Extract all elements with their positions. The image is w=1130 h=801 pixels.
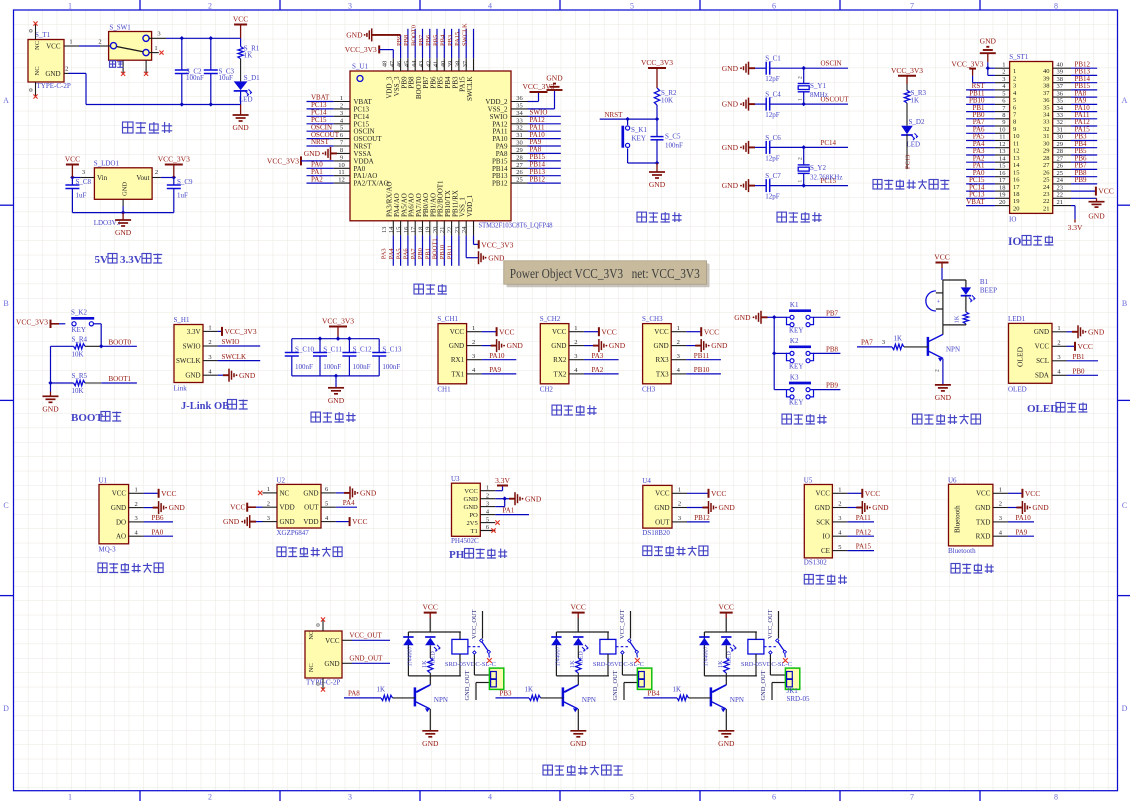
svg-text:3: 3 [882, 339, 885, 346]
svg-text:16: 16 [999, 170, 1006, 177]
svg-text:26: 26 [1057, 163, 1064, 170]
diode 1N4007 unit 3 [699, 636, 709, 638]
key S_K2 [71, 317, 94, 320]
wire net PA3 [584, 359, 619, 361]
svg-text:5: 5 [838, 544, 841, 551]
svg-text:PA1: PA1 [503, 507, 515, 515]
svg-text:SWCLK: SWCLK [222, 353, 247, 361]
svg-text:K2: K2 [790, 337, 799, 345]
svg-text:31: 31 [1057, 127, 1064, 134]
svg-text:TXD: TXD [976, 518, 990, 526]
svg-text:9: 9 [1013, 126, 1016, 133]
wire emitter unit 1 [429, 709, 431, 731]
svg-text:GND: GND [42, 404, 59, 413]
svg-text:NC: NC [280, 489, 290, 497]
ground GND at ST1 pins 1-2 [980, 52, 996, 54]
U1 left net wires VBAT..PA2 [307, 101, 334, 103]
svg-text:3.3V: 3.3V [495, 476, 510, 485]
svg-text:2: 2 [999, 501, 1002, 508]
svg-text:1N4007: 1N4007 [555, 646, 562, 666]
svg-text:11: 11 [1013, 140, 1019, 147]
svg-text:S_CH1: S_CH1 [437, 315, 458, 323]
svg-text:GND: GND [303, 489, 318, 497]
svg-text:VCC: VCC [112, 490, 127, 498]
svg-text:BOOT1: BOOT1 [432, 238, 439, 259]
capacitor S_C10 100nF [291, 339, 293, 353]
svg-text:VCC: VCC [499, 327, 514, 336]
LDO pin 3 Vin [80, 177, 94, 179]
wire net SWIO [218, 345, 261, 347]
svg-text:SWIO: SWIO [183, 342, 201, 350]
svg-text:GND: GND [464, 496, 479, 503]
svg-text:1: 1 [68, 1, 72, 10]
svg-text:29: 29 [1043, 148, 1050, 155]
svg-text:GND: GND [722, 64, 739, 73]
svg-text:Bluetooth: Bluetooth [954, 505, 962, 533]
svg-text:PA7: PA7 [410, 248, 417, 260]
svg-text:1K: 1K [894, 335, 903, 343]
svg-text:NRST: NRST [311, 138, 330, 146]
svg-text:2: 2 [155, 169, 158, 176]
ground GND at CH3 [686, 345, 701, 347]
svg-text:PA3: PA3 [592, 352, 604, 360]
svg-text:A: A [3, 96, 9, 105]
svg-text:13: 13 [1013, 155, 1020, 162]
svg-text:VCC: VCC [46, 43, 61, 51]
ground GND at U5 [847, 507, 862, 509]
svg-text:48: 48 [382, 61, 389, 68]
svg-text:PB8: PB8 [826, 345, 839, 353]
svg-text:31: 31 [1043, 133, 1050, 140]
title ji-dian-qi-kong-zhi-dian-lu (relay control circuit) [543, 765, 552, 775]
svg-text:NPN: NPN [946, 346, 960, 354]
svg-text:1: 1 [677, 325, 680, 332]
svg-text:32: 32 [1057, 119, 1064, 126]
header S_ST1 IO expansion [1010, 62, 1053, 214]
wire emitter unit 2 [577, 709, 579, 731]
TYPE-C-2P bottom pin no connect [322, 678, 324, 689]
ground GND at ST1 pin 22 [1071, 197, 1097, 199]
svg-text:KEY: KEY [789, 326, 803, 334]
svg-text:LED1: LED1 [1008, 315, 1026, 323]
svg-text:PB4: PB4 [648, 689, 661, 697]
capacitor S_C12 100nF [348, 339, 350, 353]
wire net PA9 [482, 373, 517, 375]
svg-text:VCC_3V3: VCC_3V3 [951, 59, 983, 68]
capacitor S_C4 12pF [755, 103, 766, 105]
svg-text:GND: GND [719, 503, 736, 512]
U3 pin 6 no connect [480, 530, 491, 532]
svg-text:2: 2 [267, 500, 270, 507]
wire net PA4 [336, 506, 357, 508]
svg-text:PB4: PB4 [440, 34, 447, 46]
svg-text:25: 25 [1043, 177, 1050, 184]
ST1 right net wires [1071, 67, 1097, 69]
svg-text:S_C13: S_C13 [382, 346, 402, 354]
svg-text:15: 15 [396, 227, 403, 234]
svg-text:21: 21 [1043, 206, 1050, 213]
svg-text:1: 1 [678, 487, 681, 494]
svg-text:JK1: JK1 [787, 687, 799, 695]
svg-text:3: 3 [208, 354, 211, 361]
svg-text:23: 23 [1057, 184, 1064, 191]
svg-text:22: 22 [447, 227, 454, 234]
wire net PA0 module [144, 535, 173, 537]
title chuan-kou-dian-lu (serial circuit) [552, 405, 561, 415]
svg-text:PA6: PA6 [403, 248, 410, 260]
svg-text:27: 27 [1057, 155, 1064, 162]
svg-text:40: 40 [440, 61, 447, 68]
svg-text:RXD: RXD [976, 533, 991, 541]
svg-text:S_D2: S_D2 [909, 118, 925, 126]
svg-text:GND: GND [935, 393, 952, 402]
svg-text:GND: GND [115, 228, 132, 237]
title jiu-jing-jian-ce-mo-kuai (alcohol detection module) [98, 563, 107, 573]
svg-text:VCC_3V3: VCC_3V3 [267, 157, 299, 166]
power VCC_3V3 at H1 pin 1 [218, 330, 222, 332]
svg-text:OUT: OUT [304, 504, 319, 512]
svg-text:3: 3 [157, 31, 160, 38]
svg-text:1K: 1K [569, 660, 576, 668]
svg-text:PB11: PB11 [694, 352, 710, 360]
wire net SWCLK [218, 360, 261, 362]
svg-text:S_CH2: S_CH2 [540, 315, 561, 323]
svg-text:KEY: KEY [789, 399, 803, 407]
svg-text:36: 36 [1057, 90, 1064, 97]
wire net PB11 [686, 359, 721, 361]
power VCC_3V3 filter [329, 326, 347, 328]
svg-text:46: 46 [396, 60, 403, 67]
wire net PB9 [814, 389, 841, 391]
power VCC at LED1 pin 2 [1067, 345, 1076, 347]
svg-text:2: 2 [935, 369, 941, 372]
svg-text:TX3: TX3 [656, 370, 669, 378]
resistor S_R5 10K [51, 382, 74, 384]
svg-text:37: 37 [1043, 90, 1050, 97]
mcu S_U1 STM32F103C8T6_LQFP48 [350, 71, 511, 221]
resistor 1K relay unit 2 [577, 645, 579, 658]
wire crystal net PC15 [804, 185, 848, 187]
svg-text:PA15: PA15 [454, 32, 461, 46]
terminal block unit 1 [489, 668, 503, 689]
diode 1N4007 unit 2 [551, 636, 561, 638]
relay switch contacts unit 1 [468, 646, 480, 648]
title fu-wei-dian-lu (reset circuit) [637, 212, 646, 222]
svg-text:34: 34 [1057, 105, 1064, 112]
svg-text:38: 38 [1057, 76, 1064, 83]
svg-text:16: 16 [403, 226, 410, 233]
svg-text:3: 3 [348, 1, 352, 10]
transistor NPN relay unit 3 [725, 676, 727, 685]
svg-text:1K: 1K [525, 685, 534, 693]
svg-text:12pF: 12pF [765, 75, 780, 83]
wire net BOOT0 [99, 344, 103, 348]
svg-text:2: 2 [208, 1, 212, 10]
svg-text:VCC: VCC [1098, 187, 1113, 196]
svg-text:7: 7 [910, 792, 914, 801]
wire base feed unit 2 [496, 697, 530, 699]
svg-text:39: 39 [1043, 75, 1050, 82]
S_T1 bottom pin (no connect) [35, 82, 37, 97]
power VCC at U2 pin 4 [336, 521, 350, 523]
svg-text:GND: GND [551, 342, 566, 350]
svg-text:28: 28 [1057, 148, 1064, 155]
svg-text:BOOT: BOOT [71, 412, 103, 424]
svg-text:3: 3 [82, 169, 85, 176]
capacitor S_C5 100nF [656, 119, 658, 137]
U3 pin 5 no connect [495, 520, 499, 524]
capacitor S_C7 12pF [755, 185, 766, 187]
LED S_D1 [234, 81, 248, 90]
svg-text:100nF: 100nF [382, 363, 400, 371]
svg-text:20: 20 [432, 227, 439, 234]
svg-text:PB5: PB5 [432, 35, 439, 46]
header S_CH2 serial [540, 324, 569, 384]
svg-text:1K: 1K [377, 685, 386, 693]
svg-text:PB0: PB0 [1073, 367, 1086, 375]
svg-text:PA2: PA2 [311, 175, 323, 183]
ground GND at CH2 [584, 345, 599, 347]
svg-text:100nF: 100nF [295, 363, 313, 371]
svg-text:8MHz: 8MHz [810, 91, 828, 99]
power VCC alarm [936, 262, 949, 264]
ground GND filter [335, 376, 337, 388]
svg-text:GND: GND [975, 504, 990, 512]
svg-text:VBAT: VBAT [966, 198, 985, 206]
svg-text:3: 3 [134, 515, 137, 522]
svg-text:23: 23 [454, 227, 461, 234]
regulator S_LDO1 LDO3V3 [94, 168, 152, 200]
wire LDO ground rail [72, 212, 173, 214]
svg-text:TYPE-C-2P: TYPE-C-2P [37, 82, 71, 90]
svg-text:S_Y1: S_Y1 [810, 82, 826, 90]
svg-text:S_T1: S_T1 [35, 31, 51, 39]
svg-text:VCC: VCC [325, 637, 340, 645]
resistor S_R4 10K [51, 345, 74, 347]
connector TYPE-C-2P relay power [305, 631, 342, 678]
svg-text:GND: GND [654, 504, 669, 512]
svg-text:PB9: PB9 [1075, 176, 1088, 184]
resistor 1K alarm [965, 296, 967, 312]
ground GND above U1 pin 35 [547, 89, 563, 91]
svg-text:15: 15 [1013, 169, 1020, 176]
svg-text:VDD: VDD [303, 518, 318, 526]
svg-text:41: 41 [433, 61, 440, 68]
svg-text:VCC: VCC [352, 517, 367, 526]
svg-text:100nF: 100nF [353, 363, 371, 371]
svg-text:1: 1 [208, 325, 211, 332]
wire net PA1 [495, 514, 529, 516]
svg-text:PB7: PB7 [826, 309, 839, 317]
svg-text:GND: GND [346, 31, 363, 40]
svg-text:PB9: PB9 [396, 35, 403, 46]
resistor S_R1 1K [240, 38, 242, 46]
svg-text:1: 1 [472, 325, 475, 332]
header S_CH3 serial [643, 324, 672, 384]
svg-text:PA15: PA15 [856, 543, 872, 551]
svg-text:3: 3 [472, 353, 475, 360]
wire alarm top rail [943, 279, 966, 281]
svg-text:VCC_3V3: VCC_3V3 [16, 318, 48, 327]
svg-text:PB11: PB11 [446, 245, 453, 259]
svg-text:PA4: PA4 [343, 499, 355, 507]
svg-text:IO: IO [1009, 215, 1016, 223]
LED relay unit 1 [425, 636, 435, 638]
svg-text:KEY: KEY [632, 135, 646, 143]
svg-text:3: 3 [348, 792, 352, 801]
svg-text:VCC: VCC [654, 328, 669, 336]
power VCC_3V3 above U1 pin 36 [530, 91, 548, 93]
svg-text:KEY: KEY [789, 362, 803, 370]
wire emitter unit 3 [725, 709, 727, 731]
header S_CH1 serial [438, 324, 467, 384]
ground GND boot [50, 392, 52, 397]
svg-text:13: 13 [381, 227, 388, 234]
svg-text:35: 35 [1043, 104, 1050, 111]
svg-text:10: 10 [999, 127, 1006, 134]
svg-text:SCL: SCL [1036, 357, 1049, 365]
resistor 1K base alarm [892, 344, 904, 349]
svg-text:3: 3 [574, 353, 577, 360]
power 3.3V at ST1 pin 21 [1071, 205, 1075, 207]
svg-text:100nF: 100nF [323, 363, 341, 371]
title jing-zhen-dian-lu (crystal circuit) [777, 212, 786, 222]
svg-text:2: 2 [1057, 340, 1060, 347]
svg-text:2: 2 [798, 157, 804, 160]
transistor NPN relay unit 1 [429, 676, 431, 685]
svg-text:PO: PO [469, 512, 478, 519]
svg-text:Vout: Vout [136, 174, 149, 182]
module U1 MQ-3 [99, 485, 129, 544]
svg-text:GND: GND [45, 70, 60, 78]
svg-text:S_K1: S_K1 [631, 126, 647, 134]
wire relay common to terminal unit 1 [473, 655, 475, 676]
wire relay common to terminal unit 2 [621, 655, 623, 676]
svg-text:BOOT0: BOOT0 [109, 338, 132, 346]
wire relay unit 3 rails [704, 631, 757, 633]
svg-text:39: 39 [447, 61, 454, 68]
svg-text:37: 37 [462, 60, 469, 67]
svg-text:GND: GND [722, 181, 739, 190]
svg-text:B: B [3, 299, 8, 308]
wire D1 to GND rail [240, 91, 242, 105]
title ya-li-jian-ce-mo-kuai (pressure detection module) [277, 547, 286, 557]
transistor NPN relay unit 2 [577, 676, 579, 685]
svg-text:1: 1 [1002, 61, 1005, 68]
svg-text:SRD-05: SRD-05 [787, 695, 810, 703]
svg-text:U3: U3 [451, 475, 460, 483]
svg-text:VCC_3V3: VCC_3V3 [322, 317, 354, 326]
svg-text:PB12: PB12 [530, 175, 546, 183]
svg-text:GND: GND [360, 489, 377, 498]
display LED1 OLED [1009, 323, 1053, 383]
capacitor S_C11 100nF [319, 339, 321, 353]
svg-text:S_C4: S_C4 [765, 91, 781, 99]
ground GND at LED1 pin 1 [1067, 331, 1079, 333]
title lan-ya-mo-kuai (bluetooth module) [951, 564, 960, 574]
svg-text:1K: 1K [673, 685, 682, 693]
LDO pin 2 Vout [152, 177, 161, 179]
svg-text:S_H1: S_H1 [174, 316, 190, 324]
svg-text:12: 12 [1013, 148, 1020, 155]
U2 pin 1 no connect [258, 491, 262, 495]
svg-text:U1: U1 [99, 476, 108, 484]
svg-text:GND: GND [232, 123, 249, 132]
svg-text:11: 11 [999, 134, 1005, 141]
svg-text:VCC: VCC [815, 490, 830, 498]
svg-text:18: 18 [999, 184, 1006, 191]
svg-text:S_C12: S_C12 [353, 346, 373, 354]
svg-text:GND: GND [711, 341, 728, 350]
U1 bottom net wires [392, 235, 394, 265]
svg-text:J-Link OB: J-Link OB [181, 401, 229, 412]
svg-text:18: 18 [1013, 191, 1020, 198]
wire crystal net OSCIN [804, 67, 848, 69]
S_T1 pin 1 VCC [64, 45, 79, 47]
svg-text:6: 6 [772, 1, 776, 10]
svg-text:GND_OUT: GND_OUT [349, 655, 383, 663]
svg-text:VCC: VCC [934, 253, 949, 262]
svg-text:DS18B20: DS18B20 [642, 529, 670, 537]
svg-text:33: 33 [1057, 112, 1064, 119]
svg-text:3: 3 [999, 515, 1002, 522]
svg-text:CH3: CH3 [642, 386, 656, 394]
buzzer driver PMOS symbol [942, 280, 944, 325]
svg-text:23: 23 [1043, 191, 1050, 198]
svg-text:PB1: PB1 [1073, 353, 1086, 361]
svg-text:SDA: SDA [1035, 372, 1049, 380]
ST1 left net wires [966, 89, 995, 91]
wire base feed unit 1 [344, 697, 381, 699]
svg-text:RX1: RX1 [451, 356, 465, 364]
svg-text:GND: GND [328, 396, 345, 405]
svg-text:PB1: PB1 [424, 248, 431, 259]
svg-text:35: 35 [1057, 98, 1064, 105]
module U3 PH4502C [452, 483, 481, 536]
relay coil SRD-05VDC-SL-C unit 2 [600, 639, 616, 654]
svg-text:32.768KHz: 32.768KHz [810, 173, 842, 181]
svg-text:VCC: VCC [976, 490, 991, 498]
svg-text:GND_OUT: GND_OUT [612, 670, 619, 700]
title wen-du-jian-ce-mo-kuai (temperature module) [643, 546, 652, 556]
svg-text:VCC: VCC [865, 489, 880, 498]
svg-text:KEY: KEY [72, 326, 86, 334]
svg-text:21: 21 [1057, 199, 1064, 206]
svg-text:1: 1 [798, 98, 804, 101]
wire net PB10 [686, 373, 721, 375]
LED relay unit 2 [573, 636, 583, 638]
ground GND at U1 pin 23 [478, 251, 480, 264]
svg-text:CE: CE [821, 547, 830, 555]
svg-text:CH1: CH1 [437, 386, 451, 394]
svg-text:1: 1 [574, 325, 577, 332]
svg-text:2: 2 [208, 792, 212, 801]
svg-text:PB12: PB12 [694, 514, 710, 522]
wire filter top rail [292, 338, 379, 340]
svg-text:U6: U6 [948, 476, 957, 484]
svg-text:2: 2 [1002, 69, 1005, 76]
svg-text:GND: GND [872, 503, 889, 512]
module U4 DS18B20 [643, 485, 672, 528]
svg-text:U2: U2 [277, 476, 286, 484]
module U5 DS1302 [804, 485, 832, 558]
wire net PA9 bluetooth [1008, 535, 1034, 537]
resistor 1K relay unit 3 [725, 645, 727, 658]
svg-text:S_C11: S_C11 [323, 346, 342, 354]
wire net PC13 indicator [906, 134, 908, 169]
wire net GND_OUT unit 1 [476, 682, 489, 684]
wire net BOOT1 [101, 382, 137, 384]
